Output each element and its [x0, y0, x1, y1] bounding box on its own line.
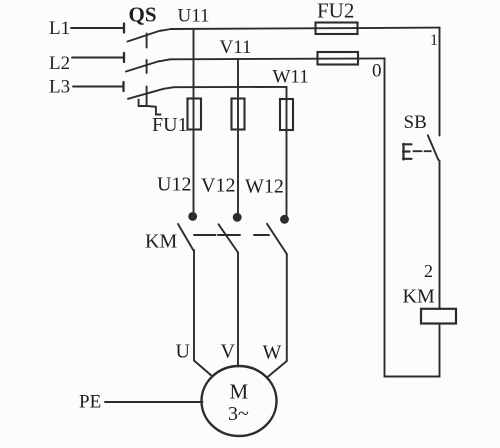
terminal tick L1 [123, 24, 125, 33]
disconnect switch QS pole 3 blade [128, 89, 164, 99]
QS linkage dashed line [146, 34, 148, 106]
svg-text:QS: QS [129, 3, 157, 27]
KM contacts linkage dashed line [194, 234, 269, 236]
svg-text:L2: L2 [49, 53, 70, 74]
fuse FU1 pole 3 [280, 99, 293, 130]
svg-text:V11: V11 [220, 37, 252, 58]
wire coil to bottom [439, 324, 441, 377]
wire U11 vertical [193, 29, 195, 213]
push button SB actuator E [403, 144, 412, 160]
svg-text:FU2: FU2 [317, 0, 354, 23]
wire W11 vertical [286, 87, 288, 216]
contactor KM main contact blade 3 [267, 224, 287, 254]
svg-text:KM: KM [145, 231, 177, 253]
QS handle step symbol [139, 100, 161, 115]
svg-text:M: M [230, 380, 249, 404]
contact KM fixed terminal dot 1 [189, 213, 196, 220]
wire PE to motor [105, 401, 203, 403]
svg-text:2: 2 [424, 261, 433, 281]
contact KM fixed terminal dot 2 [234, 214, 241, 221]
terminal tick L3 [122, 82, 124, 91]
terminal tick L2 [123, 53, 125, 62]
wire control bottom [385, 376, 440, 378]
svg-text:W11: W11 [273, 67, 309, 88]
wire row 3 (L3 to W11 drop) [164, 87, 287, 89]
wire L3 incoming [73, 86, 124, 88]
wire L2 incoming [72, 57, 124, 59]
contact KM fixed terminal dot 3 [281, 216, 288, 223]
wire row 1 bus (L1 to FU2) [161, 28, 440, 31]
fuse FU2 upper (line 1) [316, 23, 358, 35]
svg-text:W: W [263, 342, 282, 364]
svg-text:L1: L1 [49, 18, 70, 39]
contactor coil KM [421, 309, 456, 324]
wire SB to KM coil [439, 161, 441, 309]
contactor KM main contact blade 1 [178, 224, 194, 251]
wire V phase to motor [237, 253, 239, 367]
svg-text:KM: KM [403, 286, 435, 308]
svg-text:W12: W12 [245, 176, 284, 198]
push button SB blade [428, 135, 439, 160]
svg-text:3~: 3~ [228, 403, 249, 425]
svg-text:FU1: FU1 [152, 114, 188, 136]
disconnect switch QS pole 1 blade [128, 31, 161, 42]
fuse FU1 pole 1 [188, 99, 202, 130]
disconnect switch QS pole 2 blade [126, 61, 160, 72]
SB actuator dashed link [414, 150, 431, 152]
wire L1 incoming [71, 27, 124, 29]
svg-text:U12: U12 [157, 174, 191, 196]
fuse FU1 pole 2 [232, 99, 245, 130]
wire W phase to motor [267, 254, 287, 378]
svg-text:V12: V12 [201, 175, 235, 197]
fuse FU2 lower (line 0) [318, 52, 359, 65]
wire U phase to motor [194, 250, 213, 377]
wire V11 vertical [237, 59, 239, 214]
wire control right vertical upper (node 1 down to SB) [439, 28, 441, 136]
svg-text:PE: PE [79, 392, 101, 413]
svg-text:U: U [176, 341, 191, 363]
svg-text:U11: U11 [178, 6, 210, 27]
svg-text:0: 0 [372, 61, 382, 82]
svg-text:L3: L3 [49, 77, 70, 98]
motor M circle [202, 366, 277, 436]
svg-text:SB: SB [404, 112, 427, 133]
contactor KM main contact blade 2 [219, 224, 239, 252]
svg-text:V: V [221, 341, 236, 363]
wire control left vertical (node 0 down) [384, 58, 386, 376]
svg-text:1: 1 [430, 32, 438, 49]
wire row 2 bus (L2 to node 0) [160, 58, 385, 61]
